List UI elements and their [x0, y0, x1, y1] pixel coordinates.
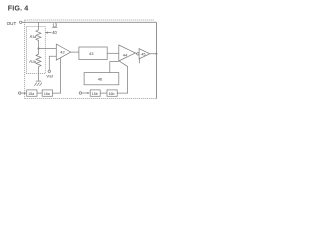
op-amp comparator 42: [56, 44, 70, 60]
terminal bottom-left: [19, 92, 21, 94]
svg-text:15b: 15b: [92, 92, 98, 96]
svg-text:46: 46: [98, 77, 103, 82]
block 43: [79, 47, 107, 60]
wire Vref input: [49, 56, 56, 70]
block 16a: [42, 90, 52, 96]
wire comparator output to block 43: [71, 51, 79, 53]
svg-text:Vref: Vref: [46, 75, 52, 79]
wire tap to comparator: [39, 48, 57, 50]
block 15b: [90, 90, 100, 96]
outer dashed block left edge: [24, 20, 26, 99]
block 16b: [107, 90, 117, 96]
wire OUT to feedback corner: [22, 21, 157, 23]
wire 44 to 45: [135, 52, 136, 55]
node output junction: [155, 53, 157, 55]
resistor R1b: [36, 49, 41, 82]
wire 16a up to comparator 42: [53, 58, 61, 93]
wire with arrow into 15a: [21, 92, 26, 94]
wire 15b to 16b: [100, 92, 107, 94]
svg-text:16a: 16a: [44, 92, 50, 96]
resistor R1a: [36, 30, 41, 49]
svg-text:OUT: OUT: [7, 21, 17, 26]
svg-text:FIG. 4: FIG. 4: [8, 3, 29, 12]
outer dashed block top edge: [25, 19, 154, 21]
ground: [36, 80, 42, 82]
arrow from 40 to resistor R1a: [48, 31, 52, 33]
node tap junction: [38, 48, 40, 50]
svg-text:15a: 15a: [28, 92, 34, 96]
wire 16b up to buffer 44: [117, 61, 127, 93]
block 46: [84, 73, 119, 85]
wire 15a to 16a: [37, 92, 42, 94]
wire with arrow into 15b: [82, 92, 89, 94]
svg-text:R1b: R1b: [29, 60, 36, 64]
svg-text:16b: 16b: [109, 92, 115, 96]
terminal bottom-middle: [79, 92, 81, 94]
svg-text:42: 42: [60, 50, 65, 55]
inner dashed block 13 (voltage divider): [26, 27, 45, 74]
wire 45 output to feedback line: [150, 53, 157, 55]
stub below inverter 45: [139, 59, 141, 63]
svg-text:40: 40: [52, 30, 57, 35]
svg-text:44: 44: [123, 53, 128, 58]
label 13: [52, 22, 58, 27]
svg-text:43: 43: [89, 51, 94, 56]
svg-text:13: 13: [53, 22, 58, 27]
outer dashed block bottom edge: [25, 98, 157, 100]
terminal Vref: [48, 70, 50, 72]
svg-text:45: 45: [141, 53, 145, 57]
svg-text:R1a: R1a: [30, 35, 37, 39]
block 15a: [27, 90, 37, 96]
wire OUT down into divider: [38, 22, 40, 30]
wire 46 to buffer 44: [110, 62, 119, 73]
inverter 45: [139, 49, 150, 59]
wire 43 to 44: [107, 52, 119, 54]
wire feedback vertical (right boundary): [155, 22, 157, 98]
inverter input bubble: [137, 53, 139, 55]
buffer 44: [119, 45, 136, 61]
